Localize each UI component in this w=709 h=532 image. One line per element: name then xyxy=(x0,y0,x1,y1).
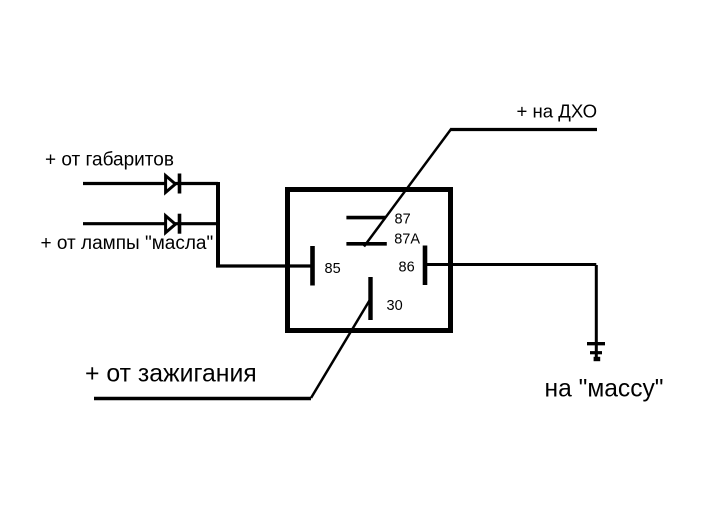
svg-text:на "массу": на "массу" xyxy=(545,376,664,403)
svg-text:86: 86 xyxy=(399,260,415,276)
svg-text:+ от габаритов: + от габаритов xyxy=(45,150,174,171)
svg-text:+ на ДХО: + на ДХО xyxy=(517,101,598,122)
svg-text:+ от зажигания: + от зажигания xyxy=(85,361,257,388)
svg-text:87A: 87A xyxy=(394,232,420,248)
svg-text:+ от лампы "масла": + от лампы "масла" xyxy=(41,233,214,254)
svg-text:30: 30 xyxy=(387,298,403,314)
svg-text:85: 85 xyxy=(325,261,341,277)
svg-text:87: 87 xyxy=(395,211,411,227)
